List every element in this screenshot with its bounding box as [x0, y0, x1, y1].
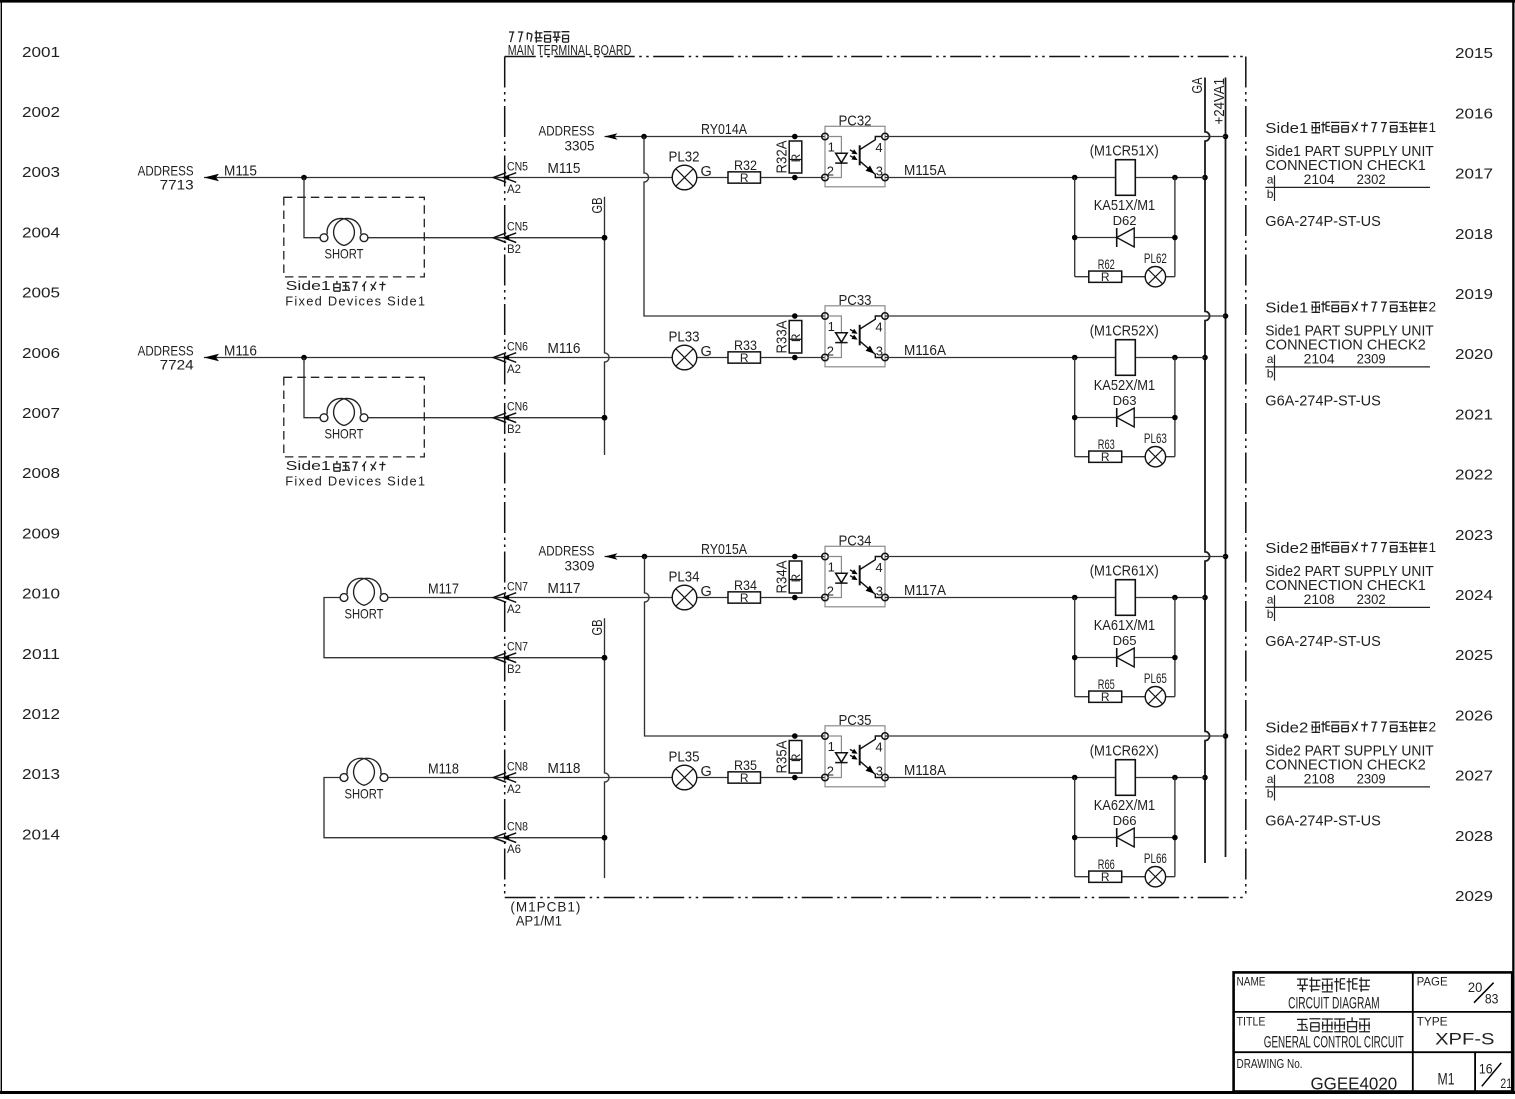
label M118 (board side): [548, 761, 581, 777]
svg-text:2302: 2302: [1357, 592, 1386, 607]
svg-text:(M1CR52X): (M1CR52X): [1090, 324, 1159, 340]
svg-text:PL63: PL63: [1144, 431, 1167, 446]
svg-text:B2: B2: [507, 664, 521, 676]
svg-text:PL34: PL34: [669, 570, 700, 586]
svg-text:D62: D62: [1113, 213, 1137, 228]
wire net M115 (row line, ADDRESS 7713 arrow to PC32 pin2): [204, 174, 825, 182]
svg-text:R35: R35: [734, 757, 757, 773]
label M115: [224, 163, 257, 179]
svg-text:PL65: PL65: [1144, 671, 1167, 686]
resistor R33: [728, 337, 761, 365]
svg-text:GA: GA: [1190, 77, 1206, 93]
wire PC33 pin4 to +24VA1: [885, 315, 1226, 317]
svg-text:2009: 2009: [22, 526, 60, 542]
svg-text:(M1CR61X): (M1CR61X): [1090, 564, 1159, 580]
svg-text:R34: R34: [734, 577, 757, 593]
wire PC32 pin4 to +24VA1: [885, 136, 1226, 138]
lamp PL32 (G): [669, 150, 712, 190]
svg-text:b: b: [1267, 607, 1274, 621]
lamp PL65: [1144, 671, 1167, 707]
svg-text:R35A: R35A: [775, 740, 791, 773]
label Side1固定デバイス / Fixed Devices Side1: [285, 279, 426, 309]
svg-text:1: 1: [1429, 120, 1437, 135]
svg-text:M118: M118: [548, 761, 581, 777]
svg-text:3: 3: [876, 163, 883, 178]
svg-text:2029: 2029: [1455, 889, 1493, 905]
svg-text:(M1CR62X): (M1CR62X): [1090, 744, 1159, 760]
svg-text:2022: 2022: [1455, 468, 1493, 484]
svg-text:SHORT: SHORT: [345, 785, 384, 801]
svg-text:M115: M115: [548, 161, 581, 177]
svg-text:M118A: M118A: [904, 763, 946, 779]
svg-text:Fixed Devices Side1: Fixed Devices Side1: [285, 295, 426, 309]
resistor R33A (vertical): [775, 313, 803, 360]
svg-text:PL35: PL35: [669, 750, 700, 766]
svg-text:2019: 2019: [1455, 287, 1493, 303]
bus GB upper segment: [590, 197, 609, 455]
svg-text:G: G: [701, 764, 712, 780]
svg-text:3: 3: [876, 343, 883, 358]
wire RY014A vertical branch with hop, to PC33 pin1 rail: [644, 137, 825, 317]
resistor R34: [728, 577, 761, 605]
svg-text:1: 1: [1429, 540, 1437, 555]
label Side1固定デバイス / Fixed Devices Side1: [285, 459, 426, 489]
svg-text:Side2: Side2: [1265, 541, 1308, 557]
svg-text:2: 2: [1429, 299, 1437, 314]
lamp PL34 (G): [669, 570, 712, 610]
node ADDRESS 7713: [138, 163, 194, 193]
svg-text:2003: 2003: [22, 165, 60, 181]
svg-text:2309: 2309: [1357, 771, 1386, 786]
resistor R66: [1089, 857, 1122, 884]
svg-text:AP1/M1: AP1/M1: [516, 913, 562, 929]
svg-text:M115A: M115A: [904, 163, 946, 179]
svg-text:A2: A2: [507, 184, 521, 196]
svg-text:4: 4: [875, 560, 882, 575]
label M116: [224, 343, 257, 359]
relay coil KA62X/M1 (M1CR62X): [1090, 744, 1159, 814]
svg-text:b: b: [1267, 787, 1274, 801]
svg-text:2011: 2011: [22, 647, 60, 663]
svg-text:2020: 2020: [1455, 347, 1493, 363]
svg-text:M1: M1: [1438, 1070, 1455, 1088]
svg-text:b: b: [1267, 187, 1274, 201]
svg-text:2012: 2012: [22, 707, 60, 723]
lamp PL35 (G): [669, 750, 712, 790]
wire relay legs / snubber loop for KA52X/M1: [1072, 358, 1178, 457]
short device (jumper) at CN5: [320, 218, 368, 261]
svg-text:2023: 2023: [1455, 528, 1493, 544]
svg-text:2007: 2007: [22, 406, 60, 422]
svg-text:D66: D66: [1113, 813, 1137, 828]
svg-text:2002: 2002: [22, 105, 60, 121]
resistor R32: [728, 157, 761, 185]
svg-text:R: R: [789, 573, 803, 582]
label M117 (board side): [548, 581, 581, 597]
svg-text:CN7: CN7: [507, 582, 528, 594]
resistor R62: [1089, 257, 1122, 284]
svg-text:B2: B2: [507, 424, 521, 436]
diode D66: [1113, 813, 1137, 847]
bus GB lower segment: [590, 618, 609, 878]
svg-text:D63: D63: [1113, 393, 1137, 408]
label M115A: [904, 163, 946, 179]
lamp PL33 (G): [669, 330, 712, 370]
svg-text:M118: M118: [428, 762, 459, 778]
dashed enclosure Fixed Devices Side1: [284, 377, 425, 457]
svg-text:CN5: CN5: [507, 162, 528, 174]
svg-text:KA61X/M1: KA61X/M1: [1094, 618, 1156, 634]
svg-text:G6A-274P-ST-US: G6A-274P-ST-US: [1265, 394, 1381, 410]
svg-text:Fixed Devices Side1: Fixed Devices Side1: [285, 475, 426, 489]
svg-text:2013: 2013: [22, 767, 60, 783]
svg-text:4: 4: [875, 140, 882, 155]
svg-text:CN6: CN6: [507, 342, 528, 354]
board ref label (M1PCB1) AP1/M1: [510, 899, 581, 929]
wire net M116A: PC33 pin3 to GA: [885, 355, 1205, 361]
connector CN5 pin B2: [493, 222, 528, 256]
connector CN8 pin A2: [493, 762, 528, 796]
svg-text:2021: 2021: [1455, 407, 1493, 423]
wire short-device return CN7 B2: [324, 598, 607, 661]
svg-text:PL32: PL32: [669, 150, 700, 166]
svg-text:2024: 2024: [1455, 588, 1493, 604]
svg-text:PC32: PC32: [839, 113, 872, 130]
svg-text:2026: 2026: [1455, 708, 1493, 724]
svg-text:SHORT: SHORT: [345, 605, 384, 621]
label M118A: [904, 763, 946, 779]
diode D62: [1113, 213, 1137, 247]
op-amp/optocoupler PC34 (pins 1,2,3,4): [822, 533, 889, 607]
svg-text:D65: D65: [1113, 633, 1137, 648]
svg-text:G: G: [701, 164, 712, 180]
svg-text:KA51X/M1: KA51X/M1: [1094, 198, 1156, 214]
relay coil KA51X/M1 (M1CR51X): [1090, 144, 1159, 214]
svg-text:20: 20: [1468, 979, 1483, 995]
svg-text:2004: 2004: [22, 225, 60, 241]
label M117A: [904, 583, 946, 599]
title block PAGE 20/83: [1417, 974, 1499, 1006]
svg-text:a: a: [1267, 772, 1274, 786]
svg-text:XPF-S: XPF-S: [1435, 1030, 1494, 1049]
svg-text:2104: 2104: [1304, 351, 1335, 366]
label M117 (left): [428, 582, 459, 598]
wire net M118A: PC35 pin3 to GA: [885, 775, 1205, 781]
bus GA (vertical, with hops over rails): [1190, 77, 1210, 863]
svg-text:R: R: [1101, 270, 1110, 284]
svg-text:2028: 2028: [1455, 829, 1493, 845]
svg-text:Side2: Side2: [1265, 720, 1308, 736]
svg-text:R32A: R32A: [775, 140, 791, 173]
svg-text:M115: M115: [224, 163, 257, 179]
svg-text:PC34: PC34: [839, 533, 872, 550]
title block NAME: 電気回路線図 CIRCUIT DIAGRAM: [1237, 974, 1380, 1012]
wire short-device branch CN5 B2: [304, 178, 607, 241]
op-amp/optocoupler PC35 (pins 1,2,3,4): [822, 712, 889, 787]
svg-text:7713: 7713: [160, 176, 194, 192]
svg-text:2302: 2302: [1357, 172, 1386, 187]
svg-text:2001: 2001: [22, 45, 60, 61]
svg-text:2025: 2025: [1455, 648, 1493, 664]
wire net M117 (short device to PC34 pin2): [388, 597, 825, 599]
resistor R35A (vertical): [775, 733, 803, 780]
wire net M117A: PC34 pin3 to GA: [885, 595, 1205, 601]
node ADDRESS 3309: [539, 543, 595, 574]
svg-text:2: 2: [827, 343, 834, 358]
lamp PL66: [1144, 851, 1167, 887]
svg-text:2: 2: [827, 763, 834, 778]
svg-text:PC35: PC35: [839, 712, 872, 729]
connector CN6 pin A2: [493, 342, 528, 376]
svg-text:2005: 2005: [22, 286, 60, 302]
svg-text:GGEE4020: GGEE4020: [1311, 1073, 1398, 1093]
svg-text:TITLE: TITLE: [1237, 1015, 1266, 1029]
svg-text:2104: 2104: [1304, 172, 1335, 187]
svg-text:2016: 2016: [1455, 106, 1493, 122]
svg-text:GB: GB: [590, 620, 606, 636]
connector CN7 pin B2: [493, 642, 528, 676]
svg-text:83: 83: [1485, 991, 1499, 1007]
wire relay legs / snubber loop for KA61X/M1: [1072, 598, 1178, 697]
svg-text:A2: A2: [507, 784, 521, 796]
svg-text:R: R: [789, 333, 803, 342]
wire net RY015A: rail from ADDRESS 3309 arrow to PC34 pin1: [605, 553, 826, 559]
title block DRAWING No. GGEE4020 / M1 / 16-21: [1237, 1057, 1513, 1094]
title block TITLE: 総合制御回路 GENERAL CONTROL CIRCUIT: [1237, 1015, 1404, 1052]
svg-text:1: 1: [828, 140, 835, 155]
svg-text:R34A: R34A: [775, 560, 791, 593]
label M116 (board side): [548, 341, 581, 357]
svg-text:PL62: PL62: [1144, 251, 1167, 266]
note Side1 part supply unit connection check2: [1265, 299, 1436, 409]
svg-text:R33: R33: [734, 337, 757, 353]
svg-text:+24VA1: +24VA1: [1212, 78, 1228, 125]
svg-text:b: b: [1267, 367, 1274, 381]
node row labels 2001-2014: [22, 45, 60, 844]
svg-text:ADDRESS: ADDRESS: [539, 123, 595, 139]
svg-text:2010: 2010: [22, 587, 60, 603]
connector CN6 pin B2: [493, 402, 528, 436]
svg-text:2: 2: [827, 163, 834, 178]
svg-text:R: R: [1101, 450, 1110, 464]
svg-text:3305: 3305: [565, 138, 595, 154]
svg-text:2008: 2008: [22, 466, 60, 482]
dashed enclosure Fixed Devices Side1: [284, 197, 425, 277]
svg-text:PAGE: PAGE: [1417, 974, 1448, 988]
svg-text:CN8: CN8: [507, 822, 528, 834]
board title メイン中継基板 / MAIN TERMINAL BOARD: [508, 31, 632, 60]
lamp PL62: [1144, 251, 1167, 287]
svg-text:DRAWING No.: DRAWING No.: [1237, 1057, 1303, 1071]
connector CN7 pin A2: [493, 582, 528, 616]
svg-text:CONNECTION CHECK2: CONNECTION CHECK2: [1265, 757, 1426, 773]
note Side2 part supply unit connection check1: [1265, 540, 1436, 650]
wire net M115A: PC32 pin3 to GA: [885, 175, 1205, 181]
wire PC35 pin4 to +24VA1: [885, 735, 1226, 737]
svg-text:A2: A2: [507, 604, 521, 616]
svg-text:M116: M116: [224, 343, 257, 359]
svg-text:21: 21: [1500, 1075, 1512, 1091]
svg-text:M117A: M117A: [904, 583, 946, 599]
label M118 (left): [428, 762, 459, 778]
label RY015A: [701, 542, 747, 558]
svg-text:SHORT: SHORT: [325, 426, 364, 442]
svg-text:1: 1: [828, 319, 835, 334]
svg-text:A2: A2: [507, 364, 521, 376]
wire short-device branch CN6 B2: [304, 358, 607, 421]
svg-text:Side1: Side1: [1265, 121, 1308, 137]
svg-text:R: R: [789, 153, 803, 162]
svg-text:4: 4: [875, 320, 882, 335]
svg-text:R63: R63: [1098, 437, 1115, 452]
svg-text:2014: 2014: [22, 827, 60, 843]
svg-text:CONNECTION CHECK1: CONNECTION CHECK1: [1265, 158, 1426, 174]
label M115 (board side): [548, 161, 581, 177]
svg-text:R66: R66: [1098, 857, 1115, 872]
svg-text:2108: 2108: [1304, 592, 1335, 607]
svg-text:4: 4: [875, 740, 882, 755]
wire PC34 pin4 to +24VA1: [885, 556, 1226, 558]
diode D63: [1113, 393, 1137, 427]
svg-text:1: 1: [828, 560, 835, 575]
svg-text:G6A-274P-ST-US: G6A-274P-ST-US: [1265, 814, 1381, 830]
svg-text:7724: 7724: [160, 356, 194, 372]
svg-text:Side1: Side1: [1265, 300, 1308, 316]
title block: [1234, 972, 1513, 1091]
svg-text:B2: B2: [507, 244, 521, 256]
wire relay legs / snubber loop for KA51X/M1: [1072, 178, 1178, 277]
svg-text:a: a: [1267, 352, 1274, 366]
label RY014A: [701, 122, 747, 138]
svg-text:R32: R32: [734, 157, 757, 173]
main terminal board boundary (M1PCB1): [505, 57, 1246, 898]
svg-text:2027: 2027: [1455, 769, 1493, 785]
svg-text:2: 2: [1429, 719, 1437, 734]
svg-text:3: 3: [876, 763, 883, 778]
resistor R63: [1089, 437, 1122, 464]
svg-text:KA62X/M1: KA62X/M1: [1094, 798, 1156, 814]
svg-text:M117: M117: [428, 582, 459, 598]
connector CN8 pin A6: [493, 822, 528, 856]
svg-text:2015: 2015: [1455, 46, 1493, 62]
svg-text:R: R: [1101, 690, 1110, 704]
resistor R34A (vertical): [775, 554, 803, 601]
short device (jumper) at CN7: [340, 578, 388, 621]
svg-text:R: R: [789, 753, 803, 762]
title block TYPE XPF-S: [1417, 1015, 1495, 1049]
svg-text:R65: R65: [1098, 677, 1115, 692]
relay coil KA52X/M1 (M1CR52X): [1090, 324, 1159, 394]
bus +24VA1 (vertical): [1212, 78, 1228, 858]
wire net RY014A: rail from ADDRESS 3305 arrow to PC32 pin1: [605, 133, 826, 139]
svg-text:16: 16: [1479, 1061, 1493, 1077]
svg-text:CN6: CN6: [507, 402, 528, 414]
op-amp/optocoupler PC33 (pins 1,2,3,4): [822, 292, 889, 367]
resistor R35: [728, 757, 761, 785]
junction dots: GA relay-row taps: [1202, 175, 1208, 781]
svg-text:2108: 2108: [1304, 771, 1335, 786]
relay coil KA61X/M1 (M1CR61X): [1090, 564, 1159, 634]
svg-text:2309: 2309: [1357, 351, 1386, 366]
short device (jumper) at CN6: [320, 398, 368, 441]
junction dots: +24VA1 rail taps: [1223, 134, 1229, 739]
short device (jumper) at CN8: [340, 758, 388, 801]
svg-text:ADDRESS: ADDRESS: [539, 543, 595, 559]
svg-text:PL33: PL33: [669, 330, 700, 346]
svg-text:2: 2: [827, 583, 834, 598]
note Side2 part supply unit connection check2: [1265, 719, 1436, 829]
svg-text:TYPE: TYPE: [1417, 1015, 1448, 1029]
svg-text:MAIN TERMINAL BOARD: MAIN TERMINAL BOARD: [508, 42, 632, 59]
svg-text:PC33: PC33: [839, 292, 872, 309]
svg-text:CN5: CN5: [507, 222, 528, 234]
svg-text:2017: 2017: [1455, 167, 1493, 183]
svg-text:2018: 2018: [1455, 227, 1493, 243]
svg-text:a: a: [1267, 593, 1274, 607]
svg-text:A6: A6: [507, 844, 521, 856]
wire short-device return CN8 A6: [324, 778, 607, 841]
svg-text:R33A: R33A: [775, 320, 791, 353]
wire net M118 (short device to PC35 pin2): [388, 777, 825, 779]
svg-text:(M1CR51X): (M1CR51X): [1090, 144, 1159, 160]
svg-text:3: 3: [876, 583, 883, 598]
svg-text:PL66: PL66: [1144, 851, 1167, 866]
svg-text:KA52X/M1: KA52X/M1: [1094, 378, 1156, 394]
svg-text:SHORT: SHORT: [325, 246, 364, 262]
svg-text:CONNECTION CHECK2: CONNECTION CHECK2: [1265, 337, 1426, 353]
connector CN5 pin A2: [493, 162, 528, 196]
svg-text:CIRCUIT DIAGRAM: CIRCUIT DIAGRAM: [1288, 994, 1380, 1012]
svg-text:RY015A: RY015A: [701, 542, 747, 558]
node ADDRESS 3305: [539, 123, 595, 154]
svg-text:R: R: [1101, 870, 1110, 884]
resistor R65: [1089, 677, 1122, 704]
svg-text:RY014A: RY014A: [701, 122, 747, 138]
svg-text:R62: R62: [1098, 257, 1115, 272]
label M116A: [904, 343, 946, 359]
diode D65: [1113, 633, 1137, 667]
svg-text:Side1: Side1: [286, 279, 331, 293]
svg-text:2006: 2006: [22, 346, 60, 362]
svg-text:G: G: [701, 584, 712, 600]
svg-text:NAME: NAME: [1237, 974, 1266, 988]
svg-text:a: a: [1267, 173, 1274, 187]
svg-text:G6A-274P-ST-US: G6A-274P-ST-US: [1265, 214, 1381, 230]
svg-text:G: G: [701, 344, 712, 360]
svg-text:G6A-274P-ST-US: G6A-274P-ST-US: [1265, 634, 1381, 650]
svg-text:Side1: Side1: [286, 459, 331, 473]
svg-text:M117: M117: [548, 581, 581, 597]
node row labels 2015-2029: [1455, 46, 1493, 905]
svg-text:CN8: CN8: [507, 762, 528, 774]
svg-text:1: 1: [828, 739, 835, 754]
note Side1 part supply unit connection check1: [1265, 120, 1436, 230]
svg-text:3309: 3309: [565, 558, 595, 574]
lamp PL63: [1144, 431, 1167, 467]
wire RY015A vertical branch with hop, to PC35 pin1 rail: [645, 557, 826, 737]
svg-text:CN7: CN7: [507, 642, 528, 654]
svg-text:GENERAL CONTROL CIRCUIT: GENERAL CONTROL CIRCUIT: [1264, 1034, 1404, 1052]
node ADDRESS 7724: [138, 343, 194, 373]
resistor R32A (vertical): [775, 134, 803, 181]
svg-text:GB: GB: [590, 198, 606, 214]
svg-text:CONNECTION CHECK1: CONNECTION CHECK1: [1265, 578, 1426, 594]
wire net M116 (row line, ADDRESS 7724 arrow to PC33 pin2): [204, 354, 825, 362]
svg-text:M116A: M116A: [904, 343, 946, 359]
svg-text:M116: M116: [548, 341, 581, 357]
wire relay legs / snubber loop for KA62X/M1: [1072, 778, 1178, 877]
op-amp/optocoupler PC32 (pins 1,2,3,4): [822, 113, 889, 187]
